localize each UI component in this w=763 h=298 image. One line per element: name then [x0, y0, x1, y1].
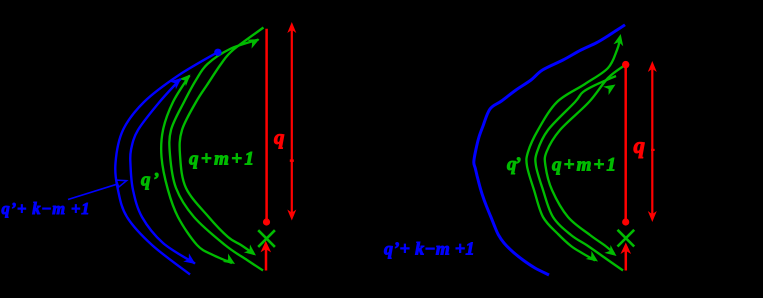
arrowhead: right measure bottom	[648, 211, 657, 222]
wire: left middle green curve	[169, 40, 263, 271]
arrowhead: left inner green bottom	[244, 244, 259, 259]
node: red dot left bottom	[263, 218, 270, 225]
arrowhead: left measure bottom	[287, 210, 296, 221]
measure arrow q right	[651, 68, 653, 215]
wire: left red bottom arrow shaft	[265, 249, 268, 271]
svg-text:q’: q’	[507, 154, 521, 175]
wire: left outer green curve	[161, 76, 232, 264]
arrowhead: right middle green top	[603, 80, 618, 95]
node: red dot right bottom	[622, 218, 629, 225]
wire: left inner green curve	[180, 28, 264, 255]
arrowhead: left measure top	[287, 22, 296, 33]
svg-text:q: q	[634, 133, 646, 158]
svg-text:q’+ k−m +1: q’+ k−m +1	[384, 239, 475, 259]
wire: left main red line	[265, 29, 268, 222]
arrowhead: left inner blue top	[169, 74, 184, 89]
wire: left outer blue curve	[115, 52, 218, 275]
node: red dot right top	[622, 61, 629, 68]
wire: right big blue C curve	[474, 25, 625, 275]
cross: green X cut left	[258, 230, 275, 247]
junction nub on left measure arrow	[290, 159, 294, 162]
svg-text:q: q	[274, 125, 285, 149]
svg-text:q’: q’	[141, 170, 159, 191]
node: blue vertex dot left	[214, 49, 221, 56]
wire: right main red line	[624, 65, 627, 222]
junction nub on right measure arrow	[651, 149, 655, 151]
arrowhead: right inner green bottom	[604, 245, 619, 260]
arrowhead: right outer green top	[613, 33, 625, 46]
arrowhead: right measure top	[648, 61, 657, 72]
arrowhead: left outer green top	[179, 71, 194, 86]
wire: right outer green curve	[526, 40, 619, 261]
arrowhead: left middle green top	[247, 35, 262, 49]
cross: green X cut right	[618, 230, 635, 247]
arrowhead: right red up arrow	[621, 243, 632, 255]
arrowhead: right outer green bottom	[586, 251, 601, 266]
pointer arrow from label to blue curves	[68, 184, 117, 199]
wire: left inner blue curve	[130, 79, 195, 264]
arrowhead: left outer green bottom	[223, 254, 238, 269]
wire: right middle green curve	[535, 76, 623, 271]
wire: right red bottom arrow shaft	[625, 250, 628, 271]
arrowhead: left red up arrow	[261, 241, 272, 253]
wire: right inner green curve	[545, 65, 626, 254]
svg-text:q’+ k−m +1: q’+ k−m +1	[2, 199, 90, 218]
arrowhead: left inner blue bottom	[183, 253, 198, 268]
measure arrow q left	[291, 29, 293, 214]
